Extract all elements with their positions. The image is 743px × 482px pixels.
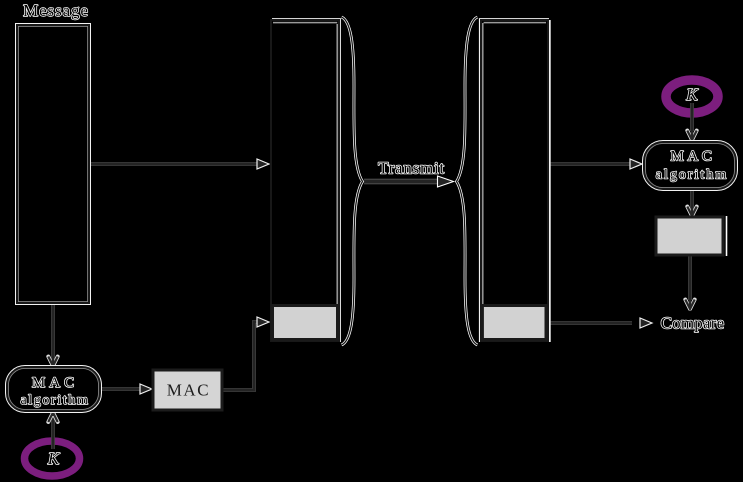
svg-text:K: K: [685, 85, 699, 104]
svg-text:MAC: MAC: [671, 149, 716, 165]
svg-text:K: K: [47, 449, 61, 468]
svg-text:Message: Message: [23, 1, 89, 20]
svg-text:algorithm: algorithm: [656, 168, 728, 183]
svg-text:Compare: Compare: [661, 314, 725, 333]
svg-text:algorithm: algorithm: [20, 393, 89, 408]
svg-text:Transmit: Transmit: [378, 159, 445, 178]
svg-text:MAC: MAC: [167, 381, 211, 400]
svg-text:MAC: MAC: [32, 375, 78, 391]
